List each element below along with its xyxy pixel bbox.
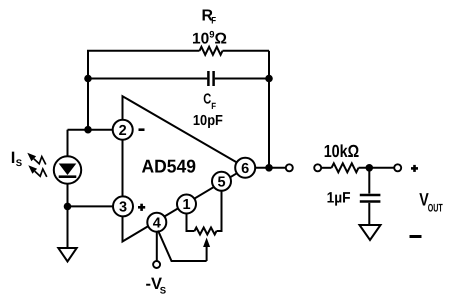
capacitor 1uF plates: [360, 195, 381, 202]
junction dot inverting node: [84, 126, 92, 134]
ground right: [360, 225, 381, 240]
wire wiper to -VS: [158, 231, 207, 262]
pin 2: [113, 120, 133, 140]
wire top feedback RF branch: [88, 51, 269, 79]
label 10^9 ohm: [192, 30, 227, 48]
svg-text:5: 5: [217, 175, 225, 191]
svg-text:1: 1: [182, 197, 190, 213]
terminal output right: [394, 164, 401, 171]
junction dot right CF: [265, 75, 273, 83]
pin 6: [235, 158, 255, 178]
resistor RF zigzag: [200, 47, 223, 55]
wire pin 4 to -VS terminal: [156, 232, 158, 261]
ground left: [58, 248, 76, 262]
plus sign pin 3: [138, 204, 145, 211]
junction dot left CF: [84, 75, 92, 83]
svg-text:F: F: [211, 16, 216, 27]
wire cap branch bottom: [368, 203, 370, 225]
wire CF branch: [88, 78, 269, 80]
svg-text:OUT: OUT: [428, 203, 443, 215]
svg-text:F: F: [211, 101, 216, 111]
op-amp U1 triangle: [123, 96, 247, 241]
label RF: [202, 7, 217, 26]
wire photodiode branch: [67, 130, 69, 248]
svg-text:6: 6: [241, 161, 249, 177]
svg-text:S: S: [160, 286, 166, 297]
label AD549: [142, 156, 197, 177]
wire filter input: [322, 167, 332, 169]
svg-text:10kΩ: 10kΩ: [324, 141, 360, 161]
label VOUT: [419, 189, 443, 214]
junction dot output node: [265, 164, 273, 172]
wire filter output: [359, 167, 394, 169]
pin 1: [177, 195, 196, 214]
wire offset null pin 1: [187, 214, 195, 232]
minus sign pin 2: [139, 128, 145, 131]
terminal filter input: [314, 164, 321, 171]
pin 5: [212, 172, 231, 191]
pin 4: [147, 213, 166, 232]
label 10pF: [193, 113, 223, 129]
terminal output left: [286, 164, 293, 171]
light arrow 2: [28, 165, 47, 177]
wire right rail to output: [268, 79, 270, 168]
svg-text:10pF: 10pF: [193, 113, 223, 129]
wire non-inverting input: [68, 205, 114, 207]
wire offset null pin 5: [217, 191, 222, 231]
svg-text:I: I: [11, 149, 16, 167]
wire op-amp output: [255, 167, 285, 169]
svg-text:AD549: AD549: [142, 156, 197, 177]
label 1uF: [327, 190, 351, 207]
wire cap branch top: [368, 168, 370, 194]
label -VS: [146, 275, 167, 297]
wire inverting input: [68, 79, 113, 130]
svg-text:2: 2: [119, 123, 127, 139]
light arrow 1: [27, 153, 46, 165]
label CF: [203, 92, 216, 111]
plus sign output: [411, 165, 418, 172]
svg-text:S: S: [16, 158, 22, 169]
pin 3: [113, 196, 133, 216]
resistor 10k zigzag: [332, 163, 359, 172]
label IS: [11, 149, 22, 169]
wiper arrow: [203, 238, 210, 262]
capacitor CF plates: [208, 71, 213, 86]
minus sign output: [410, 235, 422, 238]
photodiode D1: [54, 156, 81, 183]
potentiometer R2 zigzag: [195, 228, 217, 235]
junction dot photodiode node: [64, 203, 72, 211]
label 10k ohm: [324, 141, 360, 161]
svg-text:3: 3: [119, 200, 127, 216]
terminal -VS: [153, 261, 160, 268]
junction dot filter cap node: [366, 164, 374, 172]
svg-text:4: 4: [153, 215, 161, 231]
svg-text:1µF: 1µF: [327, 190, 351, 207]
